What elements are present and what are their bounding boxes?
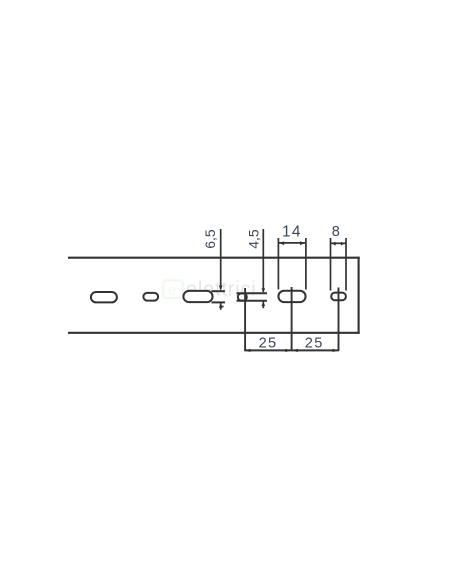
dim 14 ext right [305, 238, 307, 290]
dim 6.5 ext top [212, 290, 226, 292]
strip top edge [68, 257, 360, 259]
slot hole E [278, 291, 305, 302]
dim 4.5 line upper [262, 229, 266, 293]
dim 8 ext left [330, 238, 332, 291]
dim 8 line [331, 242, 346, 246]
center line hole F [338, 288, 340, 352]
dim 14 ext left [277, 238, 279, 290]
svg-text:e: e [168, 282, 176, 299]
svg-text:6,5: 6,5 [202, 229, 218, 249]
svg-text:25: 25 [259, 336, 278, 352]
center line hole E [291, 287, 293, 351]
svg-text:25: 25 [305, 336, 324, 352]
round hole D [238, 293, 247, 300]
strip right edge [358, 257, 360, 334]
dim 6.5 line upper [219, 229, 223, 291]
dim 25 line bottom [244, 349, 339, 352]
svg-text:4,5: 4,5 [245, 229, 261, 249]
dim 6.5 line lower [219, 303, 224, 310]
watermark logo square [163, 281, 183, 300]
dim 4.5 ext top [237, 292, 268, 294]
svg-text:8: 8 [332, 224, 340, 240]
center line hole D [244, 288, 246, 351]
dim 8 ext right [345, 238, 347, 291]
strip bottom edge [68, 332, 360, 334]
slot hole C [183, 291, 212, 302]
slot hole A [91, 292, 117, 302]
round hole F [331, 293, 346, 301]
dim 14 line [279, 241, 305, 245]
dim 6.5 ext bottom [212, 301, 226, 303]
round hole B [143, 293, 158, 301]
dim 4.5 line lower [262, 301, 266, 308]
svg-text:14: 14 [282, 223, 302, 240]
dim 4.5 ext bottom [237, 300, 268, 302]
